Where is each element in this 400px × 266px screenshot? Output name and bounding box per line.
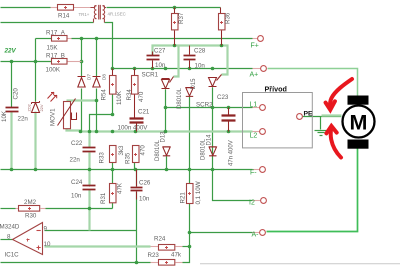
svg-text:IC1C: IC1C bbox=[5, 252, 20, 259]
svg-text:8: 8 bbox=[7, 234, 11, 241]
svg-text:Přívod: Přívod bbox=[265, 85, 287, 94]
svg-text:22V: 22V bbox=[39, 104, 44, 111]
svg-text:C23: C23 bbox=[217, 94, 229, 101]
svg-text:22V: 22V bbox=[4, 48, 17, 55]
svg-text:22n: 22n bbox=[18, 116, 29, 123]
svg-text:47n 400V: 47n 400V bbox=[229, 140, 235, 166]
svg-text:47k: 47k bbox=[171, 252, 182, 259]
svg-text:A+: A+ bbox=[250, 72, 259, 79]
svg-text:15K: 15K bbox=[47, 45, 59, 52]
svg-text:110K: 110K bbox=[116, 90, 123, 105]
svg-text:C27: C27 bbox=[154, 48, 166, 55]
svg-text:L2: L2 bbox=[250, 133, 258, 140]
svg-text:22n: 22n bbox=[70, 157, 81, 164]
svg-text:470: 470 bbox=[140, 145, 147, 156]
svg-text:R34: R34 bbox=[126, 89, 133, 101]
svg-text:9: 9 bbox=[44, 226, 48, 233]
svg-text:F+: F+ bbox=[251, 43, 259, 50]
svg-text:SCR1: SCR1 bbox=[142, 72, 159, 79]
svg-text:D14: D14 bbox=[207, 134, 213, 146]
svg-text:R21: R21 bbox=[180, 192, 187, 204]
svg-text:C24: C24 bbox=[71, 179, 83, 186]
svg-text:47K: 47K bbox=[117, 182, 124, 194]
svg-text:D8010L: D8010L bbox=[177, 87, 183, 109]
svg-text:PE: PE bbox=[304, 111, 314, 118]
svg-text:0,1 10W: 0,1 10W bbox=[195, 181, 202, 204]
svg-text:4R.1SEC: 4R.1SEC bbox=[108, 11, 126, 16]
svg-text:TR1+: TR1+ bbox=[79, 12, 90, 17]
svg-text:L1: L1 bbox=[250, 102, 258, 109]
svg-text:R31: R31 bbox=[100, 192, 107, 204]
svg-text:M: M bbox=[350, 111, 368, 135]
svg-text:F-: F- bbox=[250, 170, 257, 177]
svg-text:470: 470 bbox=[138, 91, 145, 102]
svg-text:A-: A- bbox=[252, 232, 260, 239]
svg-text:R37: R37 bbox=[178, 12, 185, 24]
svg-text:MOV1: MOV1 bbox=[50, 108, 57, 126]
svg-text:10n: 10n bbox=[71, 193, 82, 200]
svg-text:10n: 10n bbox=[195, 63, 206, 70]
svg-text:R36: R36 bbox=[225, 12, 232, 24]
svg-text:C28: C28 bbox=[194, 48, 206, 55]
svg-text:2M2: 2M2 bbox=[24, 199, 37, 206]
svg-text:R17_A: R17_A bbox=[46, 30, 66, 37]
svg-text:D7: D7 bbox=[87, 74, 92, 80]
svg-text:R17_B: R17_B bbox=[46, 53, 65, 60]
svg-text:10: 10 bbox=[44, 241, 51, 248]
svg-text:100K: 100K bbox=[46, 67, 61, 74]
svg-text:LM324D: LM324D bbox=[0, 224, 20, 231]
svg-text:R35: R35 bbox=[125, 152, 132, 164]
svg-text:10n: 10n bbox=[139, 196, 150, 203]
svg-text:D8: D8 bbox=[102, 74, 107, 80]
svg-text:10n: 10n bbox=[155, 62, 166, 69]
svg-text:ZD2: ZD2 bbox=[26, 104, 31, 111]
svg-text:R54: R54 bbox=[101, 89, 108, 101]
svg-text:10K: 10K bbox=[1, 110, 8, 122]
svg-text:R14: R14 bbox=[58, 13, 70, 20]
svg-text:R23: R23 bbox=[148, 252, 160, 259]
svg-text:C22: C22 bbox=[71, 140, 83, 147]
svg-text:C20: C20 bbox=[13, 88, 20, 100]
svg-text:C26: C26 bbox=[139, 180, 151, 187]
svg-text:R33: R33 bbox=[99, 152, 106, 164]
svg-text:R30: R30 bbox=[25, 213, 37, 220]
svg-text:C21: C21 bbox=[138, 109, 150, 116]
svg-text:R24: R24 bbox=[154, 236, 166, 243]
svg-text:SCR2: SCR2 bbox=[196, 102, 213, 109]
svg-text:D13: D13 bbox=[160, 131, 166, 143]
svg-text:100n 400V: 100n 400V bbox=[118, 125, 149, 132]
svg-text:D15: D15 bbox=[191, 78, 197, 90]
svg-text:I2: I2 bbox=[249, 200, 255, 207]
